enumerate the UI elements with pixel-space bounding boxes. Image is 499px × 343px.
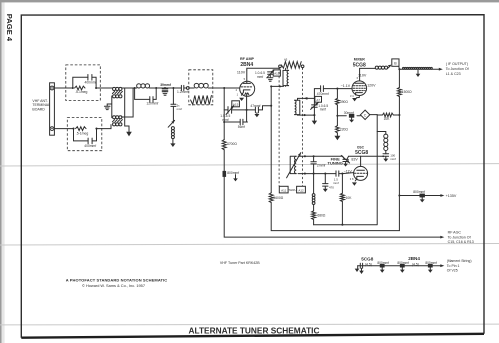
- svg-text:L1 & C23: L1 & C23: [446, 72, 461, 76]
- svg-text:−1.1V: −1.1V: [341, 84, 351, 88]
- capacitor 400mmf lower: [88, 138, 92, 144]
- svg-text:800mmf: 800mmf: [413, 190, 425, 194]
- balun T1 core: [112, 91, 122, 93]
- label 10K osc: [346, 196, 353, 200]
- VHF tuner part label: [220, 261, 260, 265]
- label IF OUTPUT: [446, 62, 468, 66]
- resistor 390ohm: [336, 98, 340, 105]
- svg-text:MIXER: MIXER: [354, 57, 366, 61]
- svg-text:5600Ω: 5600Ω: [273, 196, 283, 200]
- label 800mmf fil2: [397, 261, 409, 265]
- wire osc top line: [305, 155, 383, 157]
- label -1.1V: [341, 84, 351, 88]
- label 1.5mmf osc: [333, 178, 339, 185]
- resistor 10K osc: [340, 193, 344, 201]
- wire coil to box B: [388, 65, 392, 69]
- label 120mmf: [146, 102, 158, 106]
- capacitor filament start: [360, 263, 362, 268]
- svg-text:470mmf: 470mmf: [317, 92, 329, 96]
- title ALTERNATE TUNER SCHEMATIC: [189, 325, 320, 335]
- resistor .5-1meg upper: [75, 86, 85, 90]
- svg-text:120mmf: 120mmf: [146, 102, 158, 106]
- label RF AGC dest1: [448, 235, 471, 239]
- dashed switch line left: [278, 68, 280, 187]
- resistor channel strip top: [281, 62, 301, 69]
- svg-text:B: B: [394, 62, 397, 66]
- trimmer arrow A15: [226, 106, 234, 115]
- tube U3 cathode: [355, 176, 363, 181]
- svg-text:ALTERNATE TUNER SCHEMATIC: ALTERNATE TUNER SCHEMATIC: [189, 325, 320, 335]
- feedthrough 800mmf fil2: [400, 264, 405, 268]
- junction mixer bias column: [336, 88, 338, 90]
- coil grid choke: [171, 127, 174, 139]
- wire upper to balun: [100, 87, 112, 89]
- terminal top: [50, 86, 54, 90]
- junction 120mmf right: [155, 87, 157, 89]
- resistor 220ohm: [336, 126, 340, 133]
- coil osc plate choke: [384, 134, 388, 150]
- label 1.0-6.5 mmf mixer: [318, 104, 328, 112]
- resistor 4700ohm: [222, 140, 226, 150]
- label 39mmf: [160, 83, 172, 87]
- label 470mmf: [317, 92, 329, 96]
- tube U3 5CG8 label: [355, 150, 368, 156]
- contact circle plate right: [301, 65, 304, 68]
- trimmer arrow A7: [311, 102, 319, 109]
- osc tank lower column: [313, 174, 315, 225]
- ground filament start B: [359, 268, 364, 274]
- wire Bplus column: [271, 86, 399, 230]
- label filament dest2: [447, 269, 458, 273]
- feedthrough 30mmf: [349, 114, 354, 118]
- pin 6 label: [357, 76, 359, 80]
- svg-text:39mmf: 39mmf: [160, 83, 172, 87]
- PAGE 4 sidebar label: [5, 14, 14, 42]
- ground arrow grid choke: [170, 143, 175, 147]
- label IF dest1: [446, 67, 469, 71]
- svg-text:A15: A15: [233, 102, 239, 106]
- fine tuning capacitor: [341, 155, 349, 163]
- arrow filament string: [440, 264, 444, 267]
- svg-text:1: 1: [237, 93, 239, 97]
- junction osc coil bottom: [304, 173, 306, 175]
- pins 3 4 mixer: [350, 94, 354, 98]
- trimmer plates A13: [268, 72, 273, 77]
- junction gridleak: [324, 173, 326, 175]
- wire balun output link B: [122, 88, 134, 117]
- label 110V mixer: [358, 74, 367, 78]
- feedthrough 800mmf fil1: [380, 264, 385, 268]
- junction L3 bottom dash: [304, 114, 306, 116]
- label RF AMP: [240, 57, 255, 61]
- trimmer plates A7: [312, 105, 318, 107]
- svg-text:mmf: mmf: [320, 108, 326, 112]
- svg-text:83V: 83V: [351, 157, 358, 161]
- svg-text:1.2mmf: 1.2mmf: [177, 90, 188, 94]
- label 800mmf Bplus: [413, 190, 425, 194]
- balun T1 primary: [113, 87, 122, 90]
- ground RF cathode: [239, 98, 244, 101]
- pins 3 8 osc: [350, 177, 354, 181]
- svg-text:VHF Tuner Part KRK42B: VHF Tuner Part KRK42B: [220, 261, 260, 265]
- label 5CG8 filament: [361, 256, 373, 261]
- trimmer arrow L4: [287, 153, 301, 178]
- ground fil1: [380, 268, 385, 273]
- svg-text:A5: A5: [284, 58, 288, 62]
- feedthrough 800mmf Bplus: [420, 194, 425, 198]
- label 2BN4 filament: [408, 256, 420, 261]
- label 220: [340, 128, 349, 132]
- label OSC: [357, 145, 365, 149]
- box A15: [232, 101, 240, 107]
- svg-text:1500Ω: 1500Ω: [402, 90, 412, 94]
- label 5600: [273, 196, 283, 200]
- photofact notation text: [66, 277, 168, 288]
- label 83V: [351, 157, 358, 161]
- wire choke to cap: [385, 151, 387, 154]
- svg-text:+135V: +135V: [446, 194, 457, 198]
- label 390: [340, 100, 349, 104]
- junction coax takeoff: [398, 68, 400, 70]
- svg-text:A12: A12: [298, 188, 304, 192]
- capacitor 400mmf upper: [88, 75, 92, 81]
- capacitor 120mmf: [150, 97, 153, 103]
- svg-text:10K: 10K: [346, 196, 353, 200]
- ground 800mmf AGC: [233, 175, 238, 182]
- box A13: [273, 70, 280, 76]
- svg-text:C15, C16 & R13: C15, C16 & R13: [448, 240, 474, 244]
- junction 39mmf: [164, 87, 166, 89]
- wire filament string: [358, 265, 441, 267]
- wire top antenna lead: [54, 87, 73, 89]
- junction AGC column top: [223, 87, 225, 89]
- ground 30mmf: [349, 118, 354, 123]
- label 2mmf: [317, 163, 326, 167]
- svg-text:To Pin 1: To Pin 1: [447, 264, 460, 268]
- box A7: [315, 96, 322, 102]
- junction grid coil tap: [172, 87, 174, 89]
- fold line lower: [0, 323, 499, 326]
- wire mixer grid column: [313, 98, 315, 115]
- svg-text:mmf: mmf: [222, 118, 228, 122]
- svg-text:3 4: 3 4: [350, 94, 354, 98]
- junction cathode line y110: [246, 109, 248, 111]
- label filament string: [447, 259, 472, 263]
- wire 10K line: [377, 114, 399, 116]
- label 800mmf fil1: [377, 261, 389, 265]
- svg-text:RF AMP: RF AMP: [240, 57, 255, 61]
- wire L1 to 39mmf: [150, 87, 180, 89]
- label 56mmf: [238, 125, 245, 129]
- label .5-1meg lower: [76, 131, 89, 135]
- junction 2mmf top: [313, 155, 315, 157]
- capacitor 2mmf: [311, 156, 316, 173]
- coil osc tank: [312, 194, 315, 205]
- coil RF grid: [189, 83, 213, 88]
- label RF AGC: [448, 230, 462, 234]
- svg-text:PAGE 4: PAGE 4: [5, 14, 14, 42]
- tube U1 envelope: [240, 81, 255, 96]
- wire AGC column: [224, 88, 441, 237]
- tube U1 cathode: [241, 90, 250, 95]
- capacitor 39mmf to ground: [162, 88, 168, 92]
- label 680: [317, 214, 326, 218]
- svg-text:400mmf: 400mmf: [85, 80, 97, 84]
- label 30mmf: [344, 111, 354, 115]
- svg-text:470: 470: [329, 185, 334, 189]
- label .5-1meg upper: [75, 90, 88, 94]
- wire grid line to tube: [213, 87, 240, 89]
- capacitor 1.5mmf osc: [336, 171, 339, 176]
- capacitor 100mmf: [383, 154, 389, 159]
- wire coil to arrow: [172, 139, 174, 144]
- balun T2 secondary: [113, 123, 122, 126]
- svg-text:800mmf: 800mmf: [377, 261, 389, 265]
- coax IF output: [399, 67, 439, 69]
- label 2BN4 pins: [412, 263, 419, 267]
- label 400mmf lower: [84, 144, 96, 148]
- svg-text:2mmf: 2mmf: [317, 163, 326, 167]
- svg-text:mmf: mmf: [333, 181, 339, 185]
- coil L2 RF plate: [283, 70, 289, 85]
- svg-text:mmf: mmf: [257, 75, 263, 79]
- wire down to 50mmf: [172, 88, 174, 104]
- capacitor 1.2mmf: [180, 85, 187, 90]
- ground balun bottom: [126, 132, 132, 137]
- junction lower loop left: [72, 128, 74, 130]
- tube U3 envelope: [354, 166, 368, 180]
- label A5: [284, 58, 288, 62]
- dashed box lower antenna network: [67, 118, 102, 151]
- coil L4 oscillator: [290, 156, 305, 173]
- arrow IF output: [439, 68, 443, 71]
- svg-text:© Howard W. Sams & Co., Inc. 1: © Howard W. Sams & Co., Inc. 1957: [82, 283, 145, 288]
- svg-text:A7: A7: [316, 98, 320, 102]
- testpoint diamond C: [360, 110, 369, 119]
- junction upper loop right: [95, 87, 97, 89]
- trimmer plates A15: [228, 107, 232, 114]
- junction 56mmf branch: [223, 121, 225, 123]
- wire 470mmf line: [314, 89, 352, 99]
- svg-text:800mmf: 800mmf: [425, 261, 437, 265]
- label 47mmf: [250, 104, 260, 108]
- svg-text:THRU: THRU: [288, 188, 296, 192]
- label 800mmf fil3: [425, 261, 437, 265]
- svg-text:800mmf: 800mmf: [227, 171, 239, 175]
- arrow RF AGC: [440, 236, 444, 239]
- svg-text:.5-1meg: .5-1meg: [75, 90, 88, 94]
- coil L3 mixer grid: [295, 100, 300, 114]
- ground filament start A: [355, 266, 360, 272]
- junction main at 134.6: [134, 87, 136, 89]
- tube U1 plate: [243, 70, 250, 83]
- svg-text:BOARD: BOARD: [32, 108, 45, 112]
- label +135V: [446, 194, 457, 198]
- svg-text:To Junction Of: To Junction Of: [446, 67, 469, 71]
- wire L3 top contact: [298, 98, 315, 100]
- balun T1 secondary: [113, 95, 122, 98]
- label 1.5-6.5 mmf: [220, 114, 230, 122]
- ground 39mmf: [162, 92, 168, 95]
- ground A13 trimmer: [268, 78, 273, 81]
- resistor 5600ohm: [269, 193, 273, 203]
- page left edge: [0, 0, 5, 343]
- ground mixer grid tank: [312, 115, 317, 125]
- resistor 680ohm: [312, 211, 316, 220]
- svg-text:TUNING: TUNING: [328, 161, 343, 166]
- svg-text:−11V: −11V: [344, 169, 353, 173]
- wire 120mmf loop: [135, 88, 157, 99]
- svg-text:5CG8: 5CG8: [355, 150, 368, 156]
- label 110V RF: [237, 70, 246, 74]
- wire bias column: [336, 89, 338, 136]
- resistor 10K mixer: [382, 113, 393, 117]
- ground 47mmf: [254, 113, 259, 117]
- svg-text:OSC: OSC: [357, 145, 365, 149]
- label 1500: [402, 90, 412, 94]
- wire cap loop upper: [73, 77, 101, 88]
- svg-text:120V: 120V: [367, 84, 376, 88]
- label 50mmf: [177, 104, 183, 111]
- ground fine tuning: [343, 164, 348, 167]
- wire branch 56mmf: [224, 121, 247, 123]
- label 4700: [227, 142, 237, 146]
- wire RF cathode down: [246, 95, 248, 122]
- svg-text:800mmf: 800mmf: [397, 261, 409, 265]
- coil L1 input: [137, 84, 150, 88]
- svg-text:(filament String): (filament String): [447, 259, 472, 263]
- arrow Bplus: [440, 194, 444, 197]
- junction osc plate node: [382, 155, 384, 157]
- label FINE TUNING: [328, 156, 343, 165]
- wire testpoint line: [337, 115, 377, 116]
- dashed switch line right: [302, 68, 304, 187]
- wire right bus: [398, 66, 401, 230]
- junction 10K bus: [398, 114, 400, 116]
- svg-text:RF AGC: RF AGC: [448, 230, 462, 234]
- fold line middle: [0, 244, 499, 246]
- tube U2 envelope: [352, 81, 367, 96]
- wire mixer plate: [360, 68, 376, 81]
- ground balun center: [104, 106, 110, 109]
- label 400mmf upper: [85, 80, 97, 84]
- junction osc coil top: [304, 155, 306, 157]
- svg-text:390Ω: 390Ω: [340, 100, 349, 104]
- terminal board: [50, 83, 55, 135]
- capacitor 50mmf series: [171, 104, 176, 121]
- svg-text:110V: 110V: [358, 74, 367, 78]
- svg-text:A13: A13: [274, 72, 280, 76]
- junction Bplus top: [270, 85, 272, 87]
- svg-text:( IF OUTPUT): ( IF OUTPUT): [446, 62, 468, 66]
- coil mixer plate: [375, 66, 387, 69]
- pin 1 label: [237, 93, 239, 97]
- shield wall: [314, 115, 378, 225]
- svg-text:5: 5: [244, 77, 246, 81]
- tube U1 grid: [241, 86, 252, 88]
- dashed box upper antenna network: [66, 65, 101, 101]
- ground gridleak: [323, 189, 328, 192]
- svg-text:110V: 110V: [237, 70, 246, 74]
- svg-text:56mf: 56mf: [238, 125, 245, 129]
- wire L3 bottom: [298, 114, 315, 117]
- resistor 1500ohm: [397, 87, 401, 96]
- wire cap loop lower: [74, 129, 102, 141]
- wire choke jog: [377, 132, 386, 135]
- label 1.2mmf: [177, 90, 188, 94]
- label RF AGC dest2: [448, 240, 474, 244]
- ground coax shield: [416, 70, 421, 77]
- label 800mmf AGC: [227, 171, 239, 175]
- label -11V: [344, 169, 353, 173]
- box B IF takeoff: [392, 59, 399, 66]
- ground 800mmf Bplus: [420, 197, 425, 202]
- svg-text:.5-1meg: .5-1meg: [76, 131, 89, 135]
- svg-text:mmf: mmf: [177, 107, 183, 111]
- junction bias mid: [336, 115, 338, 117]
- junction L2 bottom dash: [279, 85, 281, 87]
- label filament dest1: [447, 264, 460, 268]
- svg-text:Of V25: Of V25: [447, 269, 458, 273]
- pin 2 label: [236, 88, 238, 92]
- tube U3 plate: [357, 156, 365, 170]
- wire 10K osc column: [341, 174, 343, 225]
- ground fil2: [400, 268, 405, 273]
- label MIXER: [354, 57, 366, 61]
- ground mixer cathode: [352, 98, 357, 101]
- wire osc grid line: [305, 173, 354, 174]
- wire lower to balun: [102, 125, 111, 129]
- junction Bplus tap: [398, 194, 400, 196]
- junction lower loop right: [95, 128, 97, 130]
- pin 5 label: [244, 77, 246, 81]
- wire branch y110: [224, 106, 271, 110]
- wire L2 bottom: [271, 85, 285, 88]
- trimmer arrow A13: [267, 70, 274, 78]
- label 1.0-6.5 mmf left: [255, 71, 265, 79]
- svg-text:C: C: [364, 113, 367, 117]
- wire main line after balun: [122, 87, 137, 89]
- svg-text:5CG8: 5CG8: [353, 62, 366, 68]
- VHF ANT TERMINAL BOARD label: [32, 99, 50, 112]
- label 5CG8 pins: [365, 263, 372, 267]
- svg-text:10K: 10K: [384, 117, 391, 121]
- capacitor 470mmf: [321, 86, 324, 92]
- page top edge band: [0, 0, 499, 2]
- contact circle plate left: [279, 65, 282, 68]
- feedthrough 800mmf AGC: [223, 171, 227, 177]
- svg-text:2BN4: 2BN4: [408, 256, 420, 261]
- capacitor osc gridleak: [323, 174, 328, 189]
- resistor channel W: [191, 96, 212, 105]
- svg-text:3 8: 3 8: [350, 177, 354, 181]
- tube U2 screen grids: [353, 86, 365, 91]
- junction 2mmf bottom: [313, 173, 315, 175]
- ground bias column: [334, 136, 340, 140]
- svg-text:5CG8: 5CG8: [361, 256, 373, 261]
- svg-text:mmf: mmf: [390, 157, 396, 161]
- label IF dest2: [446, 72, 461, 76]
- tube U2 5CG8 label: [353, 62, 366, 68]
- svg-text:400mmf: 400mmf: [84, 144, 96, 148]
- label gridleak: [329, 185, 334, 189]
- svg-text:2BN4: 2BN4: [240, 62, 253, 68]
- contact circle left: [186, 87, 189, 90]
- balun T2 core: [112, 120, 122, 122]
- ground fil3: [428, 268, 433, 273]
- wire Bplus tap: [399, 195, 440, 197]
- junction 47mmf feed: [270, 105, 272, 107]
